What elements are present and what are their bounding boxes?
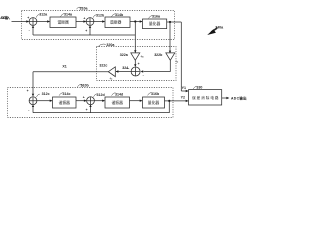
wire stage1 feedback from node to adders: [134, 22, 136, 53]
wire adder 312d to resonator 314d: [94, 100, 104, 102]
label 314a: [61, 13, 73, 17]
wire input to adder 312a: [12, 21, 29, 23]
svg-text:312a: 312a: [39, 12, 48, 16]
svg-text:+: +: [83, 96, 85, 100]
svg-text:-: -: [143, 73, 144, 77]
svg-text:322b: 322b: [154, 53, 163, 57]
svg-text:Y2: Y2: [181, 96, 185, 100]
adder 312c: [29, 97, 37, 105]
svg-text:320a: 320a: [106, 43, 115, 47]
DAC 322b: [166, 53, 175, 60]
label 314b: [112, 13, 124, 17]
adder 312d: [87, 97, 95, 105]
wire resonator 314a to adder 312b: [76, 21, 86, 23]
node after 314b: [134, 20, 136, 22]
arrowhead into DAC 322a: [134, 50, 136, 53]
amp 322c: [108, 67, 115, 77]
figure pointer arrow 340a: [211, 28, 217, 32]
label 330: [193, 86, 202, 90]
svg-text:314b: 314b: [115, 13, 124, 17]
wire X1 from amp 322c to stage 2: [33, 72, 108, 96]
adder 324: [131, 67, 140, 76]
wire DAC 322b to adder 324 right input: [143, 60, 170, 71]
svg-text:谐振器: 谐振器: [112, 100, 124, 105]
label 310b: [78, 84, 90, 88]
svg-text:314c: 314c: [63, 92, 71, 96]
stage 2 dashed box 310b: [8, 88, 174, 118]
stage 1 dashed box 310a: [22, 11, 175, 40]
svg-text:316a: 316a: [152, 15, 161, 19]
svg-text:+: +: [27, 89, 29, 93]
svg-text:312d: 312d: [97, 93, 105, 97]
svg-text:ADC输入: ADC输入: [0, 15, 11, 20]
svg-text:+: +: [27, 16, 29, 20]
label 312b: [93, 13, 105, 17]
svg-text:340a: 340a: [215, 25, 224, 29]
resonator 314c: [53, 97, 77, 108]
resonator 314b: [105, 17, 130, 28]
svg-text:谐振器: 谐振器: [110, 20, 122, 25]
wire stage2 feedback: [33, 101, 169, 113]
svg-text:322c: 322c: [99, 63, 107, 67]
quantizer 316b: [143, 97, 165, 108]
wire quantizer 316b output Y2 to error box: [165, 100, 188, 102]
wire adder 312a to resonator 314a: [37, 21, 50, 23]
label 310a: [77, 6, 89, 10]
label 316a: [149, 15, 161, 19]
svg-text:X1: X1: [62, 65, 66, 69]
svg-text:量化器: 量化器: [149, 21, 161, 26]
wire adder 324 to amp 322c: [116, 71, 131, 73]
wire ADC output: [222, 97, 229, 99]
label 324: [122, 66, 129, 70]
resonator 314d: [105, 97, 130, 108]
wire adder 312b to resonator 314b: [94, 21, 105, 23]
DAC 322a: [131, 53, 140, 60]
label 312d: [94, 93, 105, 97]
label 316b: [148, 92, 160, 96]
quantizer 316a: [143, 19, 167, 29]
adder 312b: [86, 18, 94, 26]
svg-text:314d: 314d: [115, 92, 123, 96]
svg-text:312b: 312b: [96, 13, 105, 17]
svg-text:误差消除电路: 误差消除电路: [192, 95, 219, 100]
svg-text:+: +: [83, 16, 85, 20]
wire resonator 314c to adder 312d: [76, 100, 86, 102]
wire Y1 into error box: [181, 90, 188, 92]
svg-text:ADC输出: ADC输出: [231, 95, 247, 100]
label 312a: [36, 12, 48, 17]
wire DAC 322a to adder 324: [134, 60, 136, 66]
svg-text:Y1: Y1: [182, 86, 186, 90]
resonator 314a: [50, 17, 76, 28]
svg-text:316b: 316b: [151, 92, 160, 96]
label 314c: [59, 92, 71, 96]
svg-text:谐振器: 谐振器: [59, 100, 71, 105]
label 312c: [36, 92, 49, 97]
svg-text:+: +: [138, 62, 140, 66]
wire quantizer output down to DAC 322b: [169, 22, 171, 53]
wire resonator 314d to quantizer 316b: [130, 100, 142, 102]
svg-text:322a: 322a: [120, 53, 129, 57]
wire quantizer 316a output to corner Y1: [167, 21, 182, 23]
svg-text:谐振器: 谐振器: [57, 20, 69, 25]
svg-text:314a: 314a: [64, 13, 73, 17]
wire adder 312c to resonator 314c: [37, 100, 52, 102]
svg-text:+: +: [85, 29, 87, 33]
svg-text:310a: 310a: [80, 6, 89, 10]
adder 312a: [29, 18, 37, 26]
svg-text:312c: 312c: [42, 92, 50, 96]
svg-text:+: +: [86, 108, 88, 112]
svg-text:-: -: [28, 108, 29, 112]
wire resonator 314b to quantizer 316a with node: [130, 21, 142, 23]
node after 316a: [169, 21, 171, 23]
svg-text:324: 324: [122, 66, 128, 70]
feedback network dashed box 320a: [97, 47, 177, 81]
error cancellation circuit 330: [189, 90, 222, 105]
wire Y1 vertical: [180, 22, 182, 91]
svg-text:量化器: 量化器: [148, 100, 160, 105]
label 320a: [98, 43, 115, 47]
node after 316b: [168, 100, 170, 102]
svg-text:330: 330: [196, 86, 202, 90]
svg-text:-: -: [29, 29, 30, 33]
label 314d: [112, 92, 124, 96]
svg-text:310b: 310b: [81, 84, 90, 88]
